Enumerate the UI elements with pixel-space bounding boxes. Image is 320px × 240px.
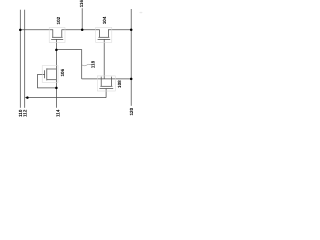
transistor Q1 (102) symbol xyxy=(51,29,63,39)
node junction dot Q3 gate loop / V6 xyxy=(55,87,58,90)
node junction dot Q4 drain / right bus xyxy=(130,78,133,81)
wire top supply rail right segment xyxy=(108,29,131,31)
wire Q3 gate loop to drain xyxy=(38,75,57,88)
svg-text:106: 106 xyxy=(60,68,65,76)
wire top supply rail left segment xyxy=(20,29,53,31)
label 100 faint xyxy=(139,12,142,14)
transistor Q2 (104) symbol xyxy=(98,29,111,39)
node junction dot line B xyxy=(26,96,29,99)
node junction dot rail-right bus xyxy=(130,29,133,32)
svg-text:120: 120 xyxy=(129,107,134,115)
wire gate lead of Q2 down to Q4 drain line xyxy=(103,39,105,79)
wire Q4 gate lead xyxy=(105,89,107,98)
node junction dot rail-V1 xyxy=(19,29,22,32)
svg-text:116: 116 xyxy=(79,0,84,7)
wire bottom line B from V2 to Q4 gate xyxy=(25,97,106,99)
wire node 118: from Q1 gate dot right then down to Q4 drain line xyxy=(56,50,81,79)
transistor Q1 (102) outline box xyxy=(49,28,65,43)
wire right bus vertical xyxy=(130,9,132,106)
svg-text:118: 118 xyxy=(91,60,96,68)
svg-text:108: 108 xyxy=(117,80,122,88)
wire 116 vertical xyxy=(81,8,83,30)
node junction dot Q1 gate / 118 xyxy=(55,49,58,52)
transistor Q4 (108) symbol xyxy=(99,77,113,89)
svg-text:114: 114 xyxy=(55,109,60,117)
wire top supply rail middle segment xyxy=(62,29,100,31)
wire input line V2 (left inner vertical) xyxy=(24,10,26,108)
wire input line V1 (left outer vertical) xyxy=(19,10,21,108)
svg-text:112: 112 xyxy=(22,109,27,117)
wire V6 mid vertical from Q1 gate through Q3 to bottom terminal xyxy=(55,39,57,107)
transistor Q2 (104) outline box xyxy=(96,28,112,43)
transistor Q4 (108) outline box xyxy=(97,76,115,91)
svg-text:104: 104 xyxy=(102,16,107,24)
label 118 leader squiggle xyxy=(82,64,91,66)
svg-text:102: 102 xyxy=(56,16,61,24)
node junction dot rail-116 xyxy=(81,29,84,32)
transistor Q3 (106) outline box xyxy=(42,66,58,83)
wire Q4 drain line horizontal xyxy=(82,78,132,80)
transistor Q3 (106) symbol, rotated, gate at left xyxy=(45,68,57,80)
